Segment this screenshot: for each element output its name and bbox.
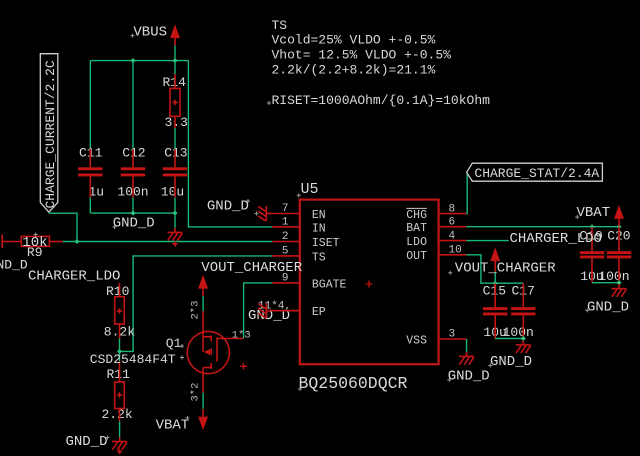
wire gnd rail <box>90 212 175 214</box>
wire Q1 to VBAT <box>202 393 204 409</box>
svg-text:Q1: Q1 <box>166 336 182 351</box>
svg-text:Vcold=25% VLDO +-0.5%: Vcold=25% VLDO +-0.5% <box>272 32 436 47</box>
svg-text:BAT: BAT <box>406 222 427 235</box>
junction C17 ground <box>521 336 526 341</box>
wire ISET net R9 to U5 pin 2 <box>63 241 273 243</box>
svg-text:100n: 100n <box>598 269 629 284</box>
red + anchor Q1 <box>240 363 247 370</box>
svg-text:RISET=1000AOhm/{0.1A}=10kOhm: RISET=1000AOhm/{0.1A}=10kOhm <box>272 93 491 108</box>
junction R10/R11/TS <box>117 349 122 354</box>
svg-text:VBAT: VBAT <box>156 418 190 434</box>
junction gnd rail C12 <box>131 211 136 216</box>
svg-text:8: 8 <box>449 203 456 215</box>
anchor crosses <box>34 34 590 440</box>
wire CHG to CHARGE_STAT label <box>465 172 468 213</box>
global label CHARGE_STAT/2.4A <box>467 163 603 181</box>
power VBUS arrow <box>170 24 180 45</box>
global label CHARGE_CURRENT/2.2C <box>40 54 58 213</box>
transistor Q1 <box>187 311 243 393</box>
wire rail to R14 <box>174 61 176 75</box>
svg-text:GND_D: GND_D <box>587 299 629 315</box>
svg-text:R11: R11 <box>107 367 131 382</box>
svg-text:BQ25060DQCR: BQ25060DQCR <box>299 374 408 393</box>
svg-text:TS: TS <box>312 251 326 264</box>
svg-text:TS: TS <box>272 18 288 33</box>
wire top rail <box>90 60 188 62</box>
pin 8 CHG stub <box>439 213 466 215</box>
svg-text:ISET: ISET <box>312 237 340 250</box>
svg-text:4: 4 <box>449 230 456 242</box>
junction BAT/C20 <box>617 224 622 229</box>
power VOUT_CHARGER arrow right <box>490 247 500 268</box>
wire R11 to ground <box>119 421 121 437</box>
pin 3 VSS stub <box>439 338 466 340</box>
wire C19/C20 bottom <box>592 282 619 284</box>
pin 6 BAT stub <box>439 226 466 228</box>
svg-text:IN: IN <box>312 222 326 235</box>
wire arrow to junction <box>494 268 496 271</box>
svg-text:CHG: CHG <box>406 209 427 222</box>
wire R10 bottom to junction <box>119 338 121 351</box>
IC U5 body <box>300 200 439 365</box>
svg-text:2.2k/(2.2+8.2k)=21.1%: 2.2k/(2.2+8.2k)=21.1% <box>272 63 436 78</box>
wire gnd rail to ground <box>174 213 176 228</box>
svg-text:5: 5 <box>282 246 289 258</box>
power VOUT_CHARGER arrow at Q1 <box>198 275 208 296</box>
wire TS net <box>120 256 273 352</box>
capacitor C19 <box>580 227 604 283</box>
svg-text:CHARGE_CURRENT/2.2C: CHARGE_CURRENT/2.2C <box>43 60 58 208</box>
capacitor C17 <box>511 283 535 338</box>
wire C15/C17 bottom <box>495 338 523 340</box>
capacitor C12 <box>121 149 145 198</box>
wire VBUS to rail <box>174 46 176 61</box>
pin 10 OUT stub <box>439 254 466 256</box>
svg-text:1*3: 1*3 <box>232 329 251 341</box>
svg-text:6: 6 <box>449 216 456 228</box>
svg-text:3: 3 <box>449 329 456 341</box>
pin 1 IN stub <box>272 226 299 228</box>
ground anchor cross over ISET wire <box>172 241 177 246</box>
ground GND_D at EN <box>258 206 271 221</box>
pin 11 EP stub overlay <box>268 310 300 312</box>
wire rail to C12 <box>132 61 134 149</box>
ground GND_D at VSS <box>459 352 474 365</box>
red + anchor inside U5 <box>366 281 373 288</box>
wire C11 bottom to gnd rail <box>89 198 91 214</box>
junction BAT/C19 <box>590 224 595 229</box>
wire OUT net to C15/C17 <box>466 255 523 283</box>
wire LDO net <box>466 240 509 242</box>
svg-text:7: 7 <box>282 203 289 215</box>
svg-text:LDO: LDO <box>406 236 427 249</box>
svg-text:U5: U5 <box>301 181 319 198</box>
svg-text:10u: 10u <box>161 185 184 200</box>
resistor R14 <box>170 74 180 128</box>
ground GND_D at cap rail <box>167 228 182 241</box>
svg-text:GND_D: GND_D <box>207 199 249 215</box>
pin 5 TS stub <box>272 255 299 257</box>
svg-text:GND_D: GND_D <box>490 354 532 370</box>
ground GND_D below R11 <box>112 437 127 450</box>
ground GND_D at EP <box>258 303 271 318</box>
junction C20 ground <box>617 280 622 285</box>
junction OUT/C15 <box>493 281 498 286</box>
svg-text:CSD25484F4T: CSD25484F4T <box>90 352 176 367</box>
wire from CHARGE_CURRENT label to ISET net <box>49 213 77 241</box>
junction rail C12 <box>131 58 136 63</box>
pin 7 EN stub <box>268 213 300 215</box>
junction gnd rail C13 <box>173 211 178 216</box>
wire BGATE net to Q1 gate <box>244 283 273 339</box>
svg-text:CHARGER_LDO: CHARGER_LDO <box>28 269 120 285</box>
svg-text:VOUT_CHARGER: VOUT_CHARGER <box>201 260 302 276</box>
svg-text:C12: C12 <box>122 146 145 161</box>
ground stub left of R9 <box>1 235 3 249</box>
svg-text:BGATE: BGATE <box>312 278 347 291</box>
power VBAT arrow down <box>198 409 208 430</box>
svg-text:2*3: 2*3 <box>190 301 202 320</box>
svg-text:VBAT: VBAT <box>577 205 611 221</box>
capacitor C15 <box>483 283 507 338</box>
NOTES TEXT BLOCK <box>272 18 491 108</box>
pin 9 BGATE stub <box>272 282 299 284</box>
svg-text:10: 10 <box>449 245 462 257</box>
svg-text:R9: R9 <box>27 245 43 260</box>
svg-text:CHARGE_STAT/2.4A: CHARGE_STAT/2.4A <box>474 166 599 181</box>
svg-text:OUT: OUT <box>406 250 427 263</box>
svg-text:GND_D: GND_D <box>113 216 155 232</box>
wire IN net: rail right to U5 pin 1 <box>188 61 272 227</box>
svg-text:VOUT_CHARGER: VOUT_CHARGER <box>455 261 556 277</box>
ground GND_D at C19/C20 <box>611 284 626 297</box>
svg-text:C15: C15 <box>483 284 506 299</box>
wire C13 bottom to gnd rail <box>174 198 176 214</box>
svg-text:C13: C13 <box>164 146 187 161</box>
pin 11 EP stub <box>268 310 300 312</box>
svg-text:GND_D: GND_D <box>0 257 28 272</box>
svg-text:Vhot= 12.5% VLDO +-0.5%: Vhot= 12.5% VLDO +-0.5% <box>272 48 452 63</box>
wire left to R9 <box>2 241 21 243</box>
wire VOUT arrow to Q1 <box>202 296 204 311</box>
svg-text:2: 2 <box>282 231 289 243</box>
wire R14 to C13 <box>174 128 176 149</box>
pin 4 LDO stub <box>439 240 466 242</box>
svg-text:GND_D: GND_D <box>448 368 490 384</box>
resistor R9 <box>21 236 62 246</box>
svg-text:EN: EN <box>312 209 326 222</box>
wire junction to R11 <box>119 351 121 361</box>
resistor R10 <box>115 283 125 339</box>
junction at label/ISET wire <box>75 239 80 244</box>
capacitor C11 <box>78 149 102 198</box>
power VBAT arrow right <box>614 205 624 226</box>
svg-text:1: 1 <box>282 217 289 229</box>
svg-text:CHARGER_LDO: CHARGER_LDO <box>510 231 602 247</box>
resistor R11 <box>115 361 125 421</box>
svg-text:GND_D: GND_D <box>66 434 108 450</box>
svg-text:VSS: VSS <box>406 334 427 347</box>
junction rail R14 <box>173 58 178 63</box>
wire rail to C11 <box>89 61 91 149</box>
svg-text:EP: EP <box>312 306 326 319</box>
wire VSS to ground <box>466 339 468 355</box>
capacitor C13 <box>163 149 187 197</box>
wire C12 bottom to gnd rail <box>132 198 134 214</box>
svg-text:3.3: 3.3 <box>165 115 188 130</box>
svg-text:3*2: 3*2 <box>190 383 202 402</box>
capacitor C20 <box>607 227 631 283</box>
wire BAT net to VBAT <box>466 226 619 228</box>
svg-text:VBUS: VBUS <box>133 24 167 40</box>
ground GND_D at C15/C17 <box>516 340 531 353</box>
pin 2 ISET stub <box>272 241 299 243</box>
